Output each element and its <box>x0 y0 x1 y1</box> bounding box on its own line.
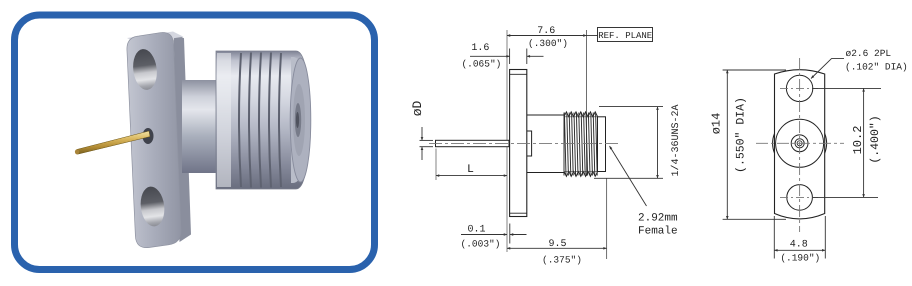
4.8 extensions <box>773 216 775 259</box>
3D connector: front nose <box>291 57 307 183</box>
horizontal centerline <box>756 142 844 144</box>
svg-text:0.1: 0.1 <box>467 225 485 236</box>
3D connector: flange front face <box>127 33 181 248</box>
3D connector: bottom flange hole <box>138 185 166 228</box>
svg-text:(.400″): (.400″) <box>869 115 882 163</box>
svg-text:(.375″): (.375″) <box>542 255 582 266</box>
3D connector: top flange hole <box>131 48 159 92</box>
side bumps <box>773 133 775 153</box>
ref plane line <box>586 30 588 176</box>
front cap <box>598 117 606 172</box>
dim oD arrows <box>421 127 423 140</box>
thread crest zigzag bottom <box>564 171 598 176</box>
svg-text:1.6: 1.6 <box>471 43 489 54</box>
3D connector: flange side face <box>174 33 192 242</box>
svg-text:(.190″): (.190″) <box>780 253 820 264</box>
dim L line <box>436 175 507 177</box>
vertical centerline <box>799 58 801 232</box>
svg-text:7.6: 7.6 <box>537 26 555 37</box>
thread hatch <box>564 113 597 176</box>
top hole <box>786 75 812 101</box>
3D connector: flange top face <box>127 32 184 44</box>
dim 0.1 arrows <box>461 234 507 236</box>
svg-text:10.2: 10.2 <box>851 126 865 155</box>
pin (side view) <box>436 140 510 146</box>
dim 7.6 line <box>507 35 587 37</box>
3D connector: front face ellipse <box>290 58 311 182</box>
inner rings <box>791 135 808 152</box>
o14 extensions <box>723 69 786 71</box>
extension line flange face <box>506 30 508 252</box>
svg-text:4.8: 4.8 <box>790 239 808 250</box>
flange (side view) <box>510 70 527 217</box>
body circle <box>776 119 824 167</box>
dim 9.5 line <box>507 247 607 249</box>
dim oD edge marks <box>420 139 434 141</box>
svg-text:REF. PLANE: REF. PLANE <box>598 31 652 41</box>
svg-text:Female: Female <box>638 226 678 238</box>
3D connector: main ribbed cylinder <box>216 51 309 189</box>
bottom hole <box>787 185 813 211</box>
10.2 dim <box>863 88 865 197</box>
plate outline <box>775 70 825 219</box>
svg-text:1/4-36UNS-2A: 1/4-36UNS-2A <box>670 104 682 176</box>
dim 1.6 ticks <box>509 49 511 65</box>
10.2 extensions <box>812 87 881 89</box>
dim 9.5 extension <box>606 179 608 260</box>
body cylinder lines <box>527 114 564 116</box>
3D connector: gold pin <box>77 131 150 154</box>
3D connector: cylinder left bright band <box>217 53 231 187</box>
dim 1.6 arrows <box>470 55 510 57</box>
3D connector: front bore <box>293 84 305 156</box>
svg-text:(.065″): (.065″) <box>461 58 501 69</box>
thread dim line <box>657 107 659 179</box>
svg-text:(.003″): (.003″) <box>461 239 501 250</box>
o14 dim <box>726 70 728 219</box>
svg-text:øD: øD <box>410 101 425 117</box>
leader 2.92mm <box>610 146 647 206</box>
leader o2.6 <box>811 59 844 79</box>
svg-text:(.300″): (.300″) <box>528 38 568 49</box>
dim 0.1 tick <box>509 224 511 244</box>
thread crest zigzag top <box>564 112 598 117</box>
top hole centerline <box>780 87 818 89</box>
4.8 dim <box>774 249 825 251</box>
svg-text:9.5: 9.5 <box>548 239 566 250</box>
svg-text:(.102″ DIA): (.102″ DIA) <box>845 61 908 72</box>
REF.PLANE box <box>598 28 653 42</box>
3D connector: rear shoulder cylinder <box>182 80 218 173</box>
blue rounded frame <box>15 15 375 270</box>
centerline <box>429 142 621 144</box>
thread start edge <box>563 113 565 176</box>
boss behind flange <box>527 131 532 156</box>
svg-text:ø2.6 2PL: ø2.6 2PL <box>846 48 892 59</box>
thread root lines <box>564 116 598 118</box>
3D connector: center pin hole <box>143 128 154 144</box>
svg-text:(.550″ DIA): (.550″ DIA) <box>735 97 748 173</box>
3D connector: groove lines <box>239 53 281 188</box>
svg-text:ø14: ø14 <box>710 113 724 135</box>
thread callout extensions <box>599 106 663 108</box>
bottom hole centerline <box>780 196 818 198</box>
svg-text:2.92mm: 2.92mm <box>638 213 678 225</box>
dim L extension <box>435 149 437 181</box>
svg-text:L: L <box>467 163 474 176</box>
